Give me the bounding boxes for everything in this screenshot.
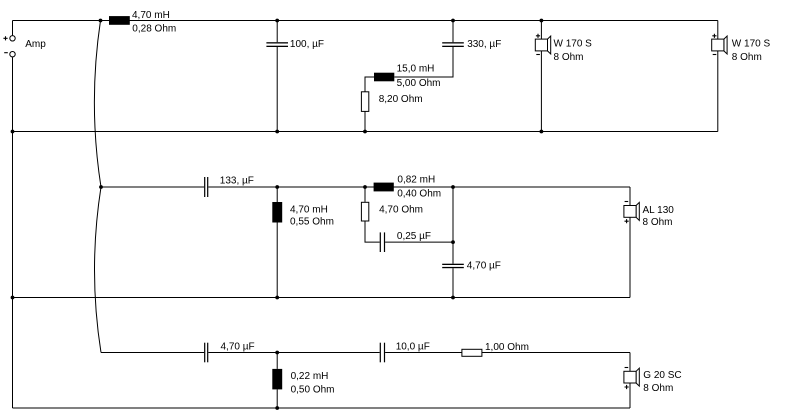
svg-text:4,70 µF: 4,70 µF [467,260,501,271]
svg-text:133, µF: 133, µF [220,175,254,186]
svg-text:4,70 mH: 4,70 mH [290,204,328,215]
svg-text:5,00 Ohm: 5,00 Ohm [397,78,441,89]
svg-text:0,82 mH: 0,82 mH [397,175,435,186]
svg-text:W 170 S: W 170 S [554,38,593,49]
svg-text:8 Ohm: 8 Ohm [732,52,762,63]
svg-text:8,20 Ohm: 8,20 Ohm [379,94,423,105]
svg-text:W 170 S: W 170 S [732,38,771,49]
svg-text:0,50 Ohm: 0,50 Ohm [291,384,335,395]
svg-text:1,00 Ohm: 1,00 Ohm [485,342,529,353]
svg-text:Amp: Amp [25,39,46,50]
svg-text:0,25 µF: 0,25 µF [397,231,431,242]
svg-text:4,70 µF: 4,70 µF [221,341,255,352]
svg-text:0,40 Ohm: 0,40 Ohm [397,189,441,200]
svg-text:8 Ohm: 8 Ohm [554,52,584,63]
svg-text:100, µF: 100, µF [290,39,324,50]
svg-text:0,55 Ohm: 0,55 Ohm [290,217,334,228]
svg-text:330, µF: 330, µF [467,39,501,50]
svg-text:0,22 mH: 0,22 mH [291,371,329,382]
svg-text:15,0 mH: 15,0 mH [397,64,435,75]
svg-text:8 Ohm: 8 Ohm [643,217,673,228]
svg-text:8 Ohm: 8 Ohm [643,383,673,394]
svg-text:G 20 SC: G 20 SC [643,370,681,381]
svg-text:10,0 µF: 10,0 µF [396,341,430,352]
svg-text:4,70 mH: 4,70 mH [132,10,170,21]
svg-text:AL 130: AL 130 [643,205,675,216]
svg-text:4,70 Ohm: 4,70 Ohm [379,204,423,215]
svg-text:0,28 Ohm: 0,28 Ohm [132,24,176,35]
